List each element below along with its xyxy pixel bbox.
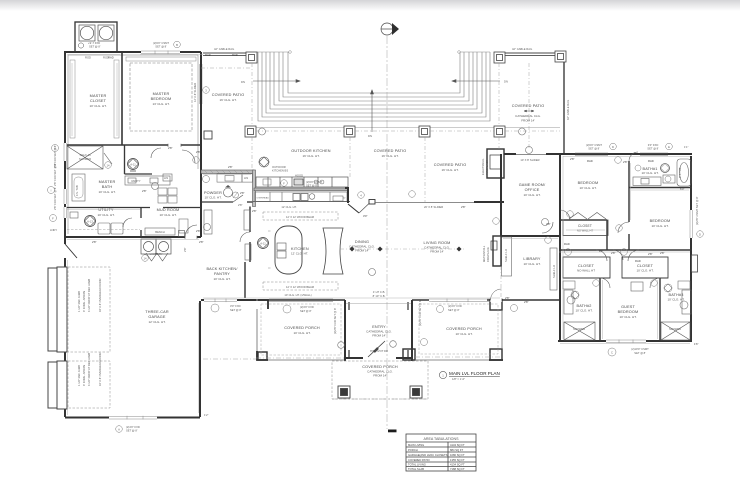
svg-text:4134 SQ FT: 4134 SQ FT <box>450 443 465 447</box>
svg-text:8'0" PIVOT DR: 8'0" PIVOT DR <box>370 349 388 353</box>
wall master suite y145 <box>65 144 201 146</box>
svg-text:SET @ 8': SET @ 8' <box>155 45 167 49</box>
patio posts mid row <box>245 126 505 137</box>
svg-text:D: D <box>612 145 614 149</box>
svg-text:2'8": 2'8" <box>240 191 245 195</box>
svg-text:2'8": 2'8" <box>648 252 653 256</box>
svg-text:CLOSET: CLOSET <box>637 264 654 268</box>
svg-text:LIN: LIN <box>164 176 168 180</box>
porch dims <box>211 304 219 312</box>
svg-text:TOTAL LIVING: TOTAL LIVING <box>408 463 426 467</box>
svg-text:OUTDOOR: OUTDOOR <box>272 165 286 169</box>
svg-text:2'8": 2'8" <box>252 209 257 213</box>
svg-text:NO WALL HT: NO WALL HT <box>577 269 595 273</box>
svg-text:SET @ 8': SET @ 8' <box>647 147 659 151</box>
svg-text:(2)3'0" FXD: (2)3'0" FXD <box>448 304 462 308</box>
svg-text:CLOSET: CLOSET <box>90 99 107 103</box>
svg-text:12' X 12' WOOD BEAM: 12' X 12' WOOD BEAM <box>286 285 315 289</box>
svg-text:2'8": 2'8" <box>196 150 201 154</box>
svg-text:DN: DN <box>368 134 372 138</box>
svg-text:COVERED PATIO: COVERED PATIO <box>212 93 245 97</box>
svg-text:+9'-7 FXD: +9'-7 FXD <box>88 41 100 45</box>
section cut line <box>386 36 388 429</box>
svg-text:MAIN LIVING: MAIN LIVING <box>408 443 424 447</box>
svg-text:2'8": 2'8" <box>461 205 466 209</box>
patio beam line <box>256 126 560 128</box>
svg-text:GUEST: GUEST <box>621 305 635 309</box>
svg-text:(2)9'0" CSMT: (2)9'0" CSMT <box>153 41 169 45</box>
svg-text:2'8": 2'8" <box>142 189 147 193</box>
svg-text:B: B <box>176 43 178 47</box>
svg-text:4 1/2" DROP AT REF JAMB: 4 1/2" DROP AT REF JAMB <box>87 353 91 386</box>
svg-text:7188 SQ FT: 7188 SQ FT <box>450 467 465 471</box>
master bedroom door gap <box>168 144 181 147</box>
library door gap in south wall <box>490 298 502 302</box>
mud room cubbies <box>158 188 188 233</box>
svg-text:2'8": 2'8" <box>505 296 510 300</box>
svg-text:C: C <box>611 351 613 355</box>
svg-text:(2)2'6" CSMT SET @ 8': (2)2'6" CSMT SET @ 8' <box>695 196 699 225</box>
svg-text:POWDER: POWDER <box>204 191 222 195</box>
garage <box>65 237 200 418</box>
svg-text:5'-6 TUB: 5'-6 TUB <box>678 167 682 178</box>
svg-text:2'6" FXD SET @ 8': 2'6" FXD SET @ 8' <box>53 163 57 186</box>
window master left wall y143-161 <box>63 143 67 161</box>
svg-text:COVERED PORCH: COVERED PORCH <box>362 365 398 369</box>
svg-text:PANTRY: PANTRY <box>214 272 230 276</box>
svg-text:E: E <box>668 145 670 149</box>
interior door arcs <box>123 148 639 261</box>
svg-text:OFFICE: OFFICE <box>525 188 540 192</box>
porch2 <box>489 300 503 360</box>
svg-text:SET @ 8': SET @ 8' <box>448 308 460 312</box>
DN arrow left <box>253 80 300 83</box>
svg-text:DN: DN <box>241 80 245 84</box>
svg-text:SET @ 8': SET @ 8' <box>89 45 101 49</box>
svg-text:10' CLG. HT.: 10' CLG. HT. <box>651 224 668 228</box>
svg-text:10' CLG. HT.: 10' CLG. HT. <box>204 196 221 200</box>
plan title <box>439 371 446 378</box>
master wing inner face lines <box>68 55 198 234</box>
svg-text:ENTRY: ENTRY <box>372 325 386 329</box>
svg-text:LIN: LIN <box>244 176 248 180</box>
svg-text:A: A <box>118 428 120 432</box>
svg-text:2'8": 2'8" <box>570 157 575 161</box>
svg-text:THREE-CAR: THREE-CAR <box>145 310 169 314</box>
svg-text:10' CLG. HT.: 10' CLG. HT. <box>523 262 540 266</box>
svg-text:3'0" FXD: 3'0" FXD <box>648 143 659 147</box>
svg-text:12' X 8' SLIDER: 12' X 8' SLIDER <box>193 83 197 102</box>
svg-text:10' CLG. HT.: 10' CLG. HT. <box>213 277 230 281</box>
utility keynote <box>85 216 96 227</box>
svg-text:BEDROOM: BEDROOM <box>151 97 172 101</box>
game room walls <box>501 154 561 341</box>
svg-text:2'8": 2'8" <box>168 146 173 150</box>
svg-text:GARAGE(AND HVAC CLOSETS): GARAGE(AND HVAC CLOSETS) <box>408 453 448 457</box>
svg-text:F.S. TUB: F.S. TUB <box>75 185 79 196</box>
right wall chase bump <box>692 255 698 272</box>
back kitchen cabinets <box>204 210 251 260</box>
svg-text:FROM 14': FROM 14' <box>430 250 444 254</box>
svg-text:6'0": 6'0" <box>680 187 685 191</box>
svg-text:BEDROOM: BEDROOM <box>650 219 671 223</box>
svg-text:10' CLG. HT.: 10' CLG. HT. <box>159 213 176 217</box>
svg-text:OUTDOOR KITCHEN: OUTDOOR KITCHEN <box>291 149 330 153</box>
svg-text:SHOWER: SHOWER <box>79 157 91 161</box>
svg-text:COVERED PORCH: COVERED PORCH <box>284 326 320 330</box>
DN arrow center <box>371 90 374 132</box>
svg-text:PORCH: PORCH <box>408 448 418 452</box>
svg-text:4134 SQ FT: 4134 SQ FT <box>450 463 465 467</box>
svg-text:MASTER: MASTER <box>99 180 116 184</box>
closet rod ticks <box>72 63 117 136</box>
svg-text:2'8": 2'8" <box>196 229 201 233</box>
svg-text:10' X 8' OVERHEAD DOOR: 10' X 8' OVERHEAD DOOR <box>98 353 102 386</box>
svg-text:16' CLG. HT.: 16' CLG. HT. <box>302 154 319 158</box>
svg-text:BENCH: BENCH <box>155 230 164 234</box>
svg-text:2'8": 2'8" <box>228 165 233 169</box>
outdoor fireplace <box>487 149 504 178</box>
svg-text:FROM 14': FROM 14' <box>372 334 386 338</box>
guest wing closets <box>563 257 610 278</box>
floor outlets <box>350 247 462 252</box>
svg-text:10' CLG. HT.: 10' CLG. HT. <box>636 269 653 273</box>
window marks on walls (white gap + thin lines + ticks) <box>63 50 693 343</box>
walk-in shower <box>67 146 112 169</box>
garage door panels <box>48 267 67 409</box>
svg-text:1'2": 1'2" <box>204 413 209 417</box>
master wing outer walls <box>64 52 201 237</box>
master east wall slider window <box>199 64 203 104</box>
svg-text:1 1/2" REF JAMB: 1 1/2" REF JAMB <box>77 365 81 386</box>
svg-text:2'8": 2'8" <box>660 251 665 255</box>
mud room bench <box>145 228 175 235</box>
svg-text:FROM 14': FROM 14' <box>373 374 387 378</box>
svg-text:16' CLG. HT.: 16' CLG. HT. <box>441 168 458 172</box>
corner post outdoor kitchen <box>204 131 212 139</box>
entry porch <box>332 361 428 399</box>
svg-text:RAD: RAD <box>232 53 238 57</box>
svg-text:SET @ 8': SET @ 8' <box>306 184 318 188</box>
svg-text:(2)2'6" FXD SET @ 8': (2)2'6" FXD SET @ 8' <box>333 307 337 334</box>
chimney box <box>75 22 117 52</box>
svg-text:10' CLG. HT.: 10' CLG. HT. <box>641 171 658 175</box>
DN arrow right <box>452 80 500 83</box>
svg-text:10' CLG. HT.: 10' CLG. HT. <box>575 309 592 313</box>
svg-text:1 1/2" REF JAMB: 1 1/2" REF JAMB <box>77 291 81 312</box>
svg-text:1/8" = 1'-0": 1/8" = 1'-0" <box>452 377 465 381</box>
svg-text:SET @ 8': SET @ 8' <box>634 351 646 355</box>
svg-text:CATHEDRAL CLG.: CATHEDRAL CLG. <box>515 114 541 118</box>
north arrow / section bubble <box>381 23 399 35</box>
svg-text:FIREPLACE: FIREPLACE <box>486 247 490 262</box>
svg-text:UTILITY: UTILITY <box>98 208 114 212</box>
wall double-line accents <box>67 55 690 416</box>
top gradient band <box>0 0 740 11</box>
svg-text:2'8": 2'8" <box>183 247 187 252</box>
svg-text:8' 10" C.B.: 8' 10" C.B. <box>373 294 386 298</box>
svg-text:AREA TABULATIONS: AREA TABULATIONS <box>424 437 460 441</box>
svg-text:16' CLG. HT.: 16' CLG. HT. <box>219 98 236 102</box>
svg-text:2'8": 2'8" <box>599 249 604 253</box>
porch roof dash-dot lines <box>203 357 500 399</box>
cable rail top <box>203 53 556 55</box>
svg-text:MASTER: MASTER <box>90 94 107 98</box>
svg-text:BACK KITCHEN/: BACK KITCHEN/ <box>206 267 238 271</box>
svg-text:LIBRARY: LIBRARY <box>523 257 541 261</box>
guest bath fixtures <box>563 281 690 309</box>
svg-text:DN: DN <box>504 80 508 84</box>
svg-text:SHOWER: SHOWER <box>573 327 585 331</box>
svg-text:COVERED PATIO: COVERED PATIO <box>434 163 467 167</box>
wing top windows <box>575 153 668 156</box>
svg-text:20' X 8' SLIDER: 20' X 8' SLIDER <box>424 205 443 209</box>
svg-text:(2)2'6" FXD SET @ 8': (2)2'6" FXD SET @ 8' <box>418 299 422 326</box>
svg-text:ROD: ROD <box>85 56 91 60</box>
window guest south wall <box>606 339 646 343</box>
svg-text:2'8": 2'8" <box>611 251 616 255</box>
section cut end marker <box>388 430 397 433</box>
svg-text:COVERED PORCH: COVERED PORCH <box>446 327 482 331</box>
vanity master bath <box>125 174 172 185</box>
svg-text:16' CLG. HT.: 16' CLG. HT. <box>381 154 398 158</box>
svg-text:A-13: A-13 <box>87 220 93 224</box>
svg-text:SET @ 8': SET @ 8' <box>588 147 600 151</box>
south wall window lines <box>269 299 489 302</box>
kitchen counters top <box>253 192 350 202</box>
window south wall porch2 <box>429 298 487 302</box>
svg-text:4' FORE. APRON: 4' FORE. APRON <box>82 291 86 312</box>
garage bottom dim <box>116 426 123 433</box>
svg-text:12' X 12' WOOD BEAM: 12' X 12' WOOD BEAM <box>286 215 315 219</box>
svg-text:METRAPOLL: METRAPOLL <box>482 245 486 262</box>
window master left wall y189-204 <box>63 189 67 204</box>
guest hall door arcs <box>600 250 660 288</box>
porch1 <box>257 300 345 360</box>
svg-text:(2)10'0" CSMT: (2)10'0" CSMT <box>631 347 649 351</box>
garage door dashed guides <box>68 267 110 408</box>
svg-text:CLOSET: CLOSET <box>578 264 595 268</box>
svg-text:RAD: RAD <box>635 259 641 263</box>
svg-text:10' CLG. HT.: 10' CLG. HT. <box>619 315 636 319</box>
svg-text:MUD ROOM: MUD ROOM <box>157 208 180 212</box>
powder vanity row <box>217 174 253 182</box>
outdoor kitchen wall hatched <box>254 188 348 191</box>
svg-text:BATH#3: BATH#3 <box>669 293 684 297</box>
svg-text:RAD: RAD <box>564 242 570 246</box>
svg-text:(2)9'0" CSMT: (2)9'0" CSMT <box>306 180 322 184</box>
svg-text:COVERED PATIO: COVERED PATIO <box>374 149 407 153</box>
svg-text:10' X 8' SLIDER: 10' X 8' SLIDER <box>520 158 539 162</box>
master bath area walls <box>66 145 201 237</box>
svg-text:COVERED PATIO: COVERED PATIO <box>408 458 430 462</box>
svg-text:(2)3'0" FXD: (2)3'0" FXD <box>300 305 314 309</box>
bedroom3/hall walls <box>560 161 692 250</box>
washer dryer <box>141 239 171 254</box>
svg-text:SHOWER: SHOWER <box>669 327 681 331</box>
svg-text:10' CLG. HT.: 10' CLG. HT. <box>97 213 114 217</box>
utility fixtures <box>70 212 123 234</box>
closet shelf lines <box>70 57 196 138</box>
svg-text:2'8": 2'8" <box>524 300 529 304</box>
svg-text:ELECTRICAL: ELECTRICAL <box>481 158 485 175</box>
svg-text:MASTER: MASTER <box>153 92 170 96</box>
svg-text:KITCHEN BS: KITCHEN BS <box>272 169 288 173</box>
closet bedroom3 <box>563 220 608 236</box>
svg-text:SET @ 8': SET @ 8' <box>126 429 138 433</box>
svg-text:12' CLG. HT.: 12' CLG. HT. <box>148 320 165 324</box>
window master top wall <box>141 50 180 54</box>
svg-text:13' CLG. HT.: 13' CLG. HT. <box>152 102 169 106</box>
svg-text:LNDY: LNDY <box>50 228 57 232</box>
outdoor kitchen keynote <box>259 157 269 167</box>
svg-text:1'6": 1'6" <box>694 342 699 346</box>
svg-text:10' CLG. HT.: 10' CLG. HT. <box>293 331 310 335</box>
window right wall bedroom2 <box>689 210 693 238</box>
svg-text:(2)9'0" CSMT: (2)9'0" CSMT <box>586 143 602 147</box>
svg-text:14: 14 <box>107 164 110 168</box>
svg-text:10' CLG. HT.: 10' CLG. HT. <box>455 332 472 336</box>
living north wall with slider <box>345 188 504 213</box>
master bath freestanding tub <box>72 174 85 201</box>
svg-text:GAME ROOM/: GAME ROOM/ <box>519 183 546 187</box>
guest wing walls <box>563 278 668 341</box>
svg-text:TOTAL SLAB: TOTAL SLAB <box>408 467 424 471</box>
svg-text:SET @ 8': SET @ 8' <box>230 308 242 312</box>
svg-text:3'0": 3'0" <box>363 214 368 218</box>
bedroom wing top wall <box>558 154 692 341</box>
svg-text:BEDROOM: BEDROOM <box>618 310 639 314</box>
svg-text:42" CABLE RAIL: 42" CABLE RAIL <box>214 47 235 51</box>
bath vanities <box>564 282 691 314</box>
south wall <box>201 299 560 301</box>
svg-text:D: D <box>699 233 701 237</box>
svg-text:BATH: BATH <box>102 185 113 189</box>
svg-text:FIREPLACE: FIREPLACE <box>485 160 489 175</box>
kitchen island <box>275 226 302 274</box>
svg-text:2'8": 2'8" <box>546 222 551 226</box>
svg-text:42" CABLE RAIL: 42" CABLE RAIL <box>512 47 533 51</box>
svg-text:FROM 14': FROM 14' <box>521 119 535 123</box>
svg-text:10' CLG. HT.: 10' CLG. HT. <box>523 193 540 197</box>
area tabulations table <box>406 434 476 471</box>
cable rail right <box>563 60 565 153</box>
svg-text:10' CLG. HT.: 10' CLG. HT. <box>579 186 596 190</box>
svg-text:1'1": 1'1" <box>684 145 689 149</box>
svg-text:KITCHEN: KITCHEN <box>291 247 309 251</box>
svg-text:SET @ 8': SET @ 8' <box>300 309 312 313</box>
svg-text:2'8": 2'8" <box>623 160 628 164</box>
wall closet/bedroom divider <box>121 53 123 145</box>
svg-text:12' CLG. HT.: 12' CLG. HT. <box>281 205 297 209</box>
svg-text:SHELF LO: SHELF LO <box>552 265 556 278</box>
left dimension line <box>52 145 59 152</box>
svg-text:10' CLG. HT. (1/WALL): 10' CLG. HT. (1/WALL) <box>284 293 311 297</box>
bath1 <box>635 165 641 171</box>
svg-text:DINING: DINING <box>355 240 369 244</box>
misc keynote circles <box>152 128 549 348</box>
keynote diamonds guest <box>571 284 672 299</box>
misc tiny dim texts scattered <box>92 53 653 304</box>
entry pivot door <box>368 341 385 357</box>
living room fireplace <box>491 236 501 266</box>
svg-text:RAD: RAD <box>648 159 654 163</box>
garage bottom window <box>109 416 157 420</box>
svg-text:884 SQ FT: 884 SQ FT <box>450 448 464 452</box>
bottom dims guest wing <box>608 348 616 356</box>
svg-text:4' HT C.B.: 4' HT C.B. <box>373 290 386 294</box>
porch inner dashed outlines <box>261 304 498 355</box>
svg-text:4' FORE. APRON: 4' FORE. APRON <box>82 365 86 386</box>
svg-text:SHELF LO: SHELF LO <box>504 249 508 262</box>
foyer hatched walls <box>201 170 254 174</box>
svg-text:12' CLG. HT.: 12' CLG. HT. <box>291 252 308 256</box>
svg-text:2'8": 2'8" <box>238 203 243 207</box>
svg-text:RAD: RAD <box>587 159 593 163</box>
svg-text:BEDROOM: BEDROOM <box>578 181 599 185</box>
svg-text:LIVING ROOM: LIVING ROOM <box>424 241 451 245</box>
svg-text:WALK-IN: WALK-IN <box>79 153 90 157</box>
svg-text:VANITY: VANITY <box>131 179 141 183</box>
svg-text:2'8": 2'8" <box>92 240 97 244</box>
svg-text:1355 SQ FT: 1355 SQ FT <box>450 458 465 462</box>
utility dashes <box>67 229 140 231</box>
svg-text:GARAGE: GARAGE <box>148 315 165 319</box>
svg-text:HOOD: HOOD <box>295 174 303 178</box>
library shelves <box>502 237 558 290</box>
svg-text:A-11: A-11 <box>130 163 136 167</box>
svg-text:CLOSET: CLOSET <box>578 224 592 228</box>
back kitchen walls <box>245 207 250 299</box>
svg-text:BATH#2: BATH#2 <box>577 304 592 308</box>
patio dashed edges mid band <box>201 63 560 202</box>
svg-text:3'0" FXD: 3'0" FXD <box>230 304 241 308</box>
svg-text:1080 SQ FT: 1080 SQ FT <box>450 453 465 457</box>
svg-text:2'6" FXD SET @ 8': 2'6" FXD SET @ 8' <box>53 187 57 210</box>
svg-text:MAIN LVL FLOOR PLAN: MAIN LVL FLOOR PLAN <box>449 371 500 376</box>
svg-text:NO WALL HT: NO WALL HT <box>577 229 594 233</box>
svg-text:OVERHEAD: OVERHEAD <box>257 197 270 200</box>
svg-text:42" CABLE RAIL: 42" CABLE RAIL <box>566 99 570 120</box>
svg-text:(2)4'0" FXD: (2)4'0" FXD <box>126 425 140 429</box>
svg-text:2'8": 2'8" <box>199 240 204 244</box>
svg-text:14: 14 <box>144 257 147 261</box>
extra annotations <box>108 56 699 347</box>
svg-text:RAD: RAD <box>205 53 211 57</box>
svg-text:A-11: A-11 <box>260 242 266 246</box>
window master left wall y207-218 <box>63 207 67 218</box>
stepped terrace <box>258 52 490 121</box>
master bedroom ceiling dashed <box>130 63 192 131</box>
dining hutch curved <box>323 228 343 274</box>
svg-text:COVERED PATIO: COVERED PATIO <box>512 104 545 108</box>
svg-text:4 1/2" DROP AT REF JAMB: 4 1/2" DROP AT REF JAMB <box>87 279 91 312</box>
window south wall porch1 <box>204 298 237 302</box>
svg-text:10' CLG. HT.: 10' CLG. HT. <box>98 190 115 194</box>
svg-text:16' X 8' OVERHEAD DOOR: 16' X 8' OVERHEAD DOOR <box>98 279 102 312</box>
toilet master keynote <box>128 159 139 170</box>
beams dashed kitchen <box>263 212 338 290</box>
outdoor kitchen counter <box>256 177 348 187</box>
powder walls <box>201 201 253 203</box>
patio posts top row <box>246 51 566 63</box>
entry walls <box>345 300 412 361</box>
mud-garage door gap <box>185 236 197 239</box>
svg-text:ROD: ROD <box>103 56 109 60</box>
svg-text:10' CLG. HT.: 10' CLG. HT. <box>89 104 106 108</box>
